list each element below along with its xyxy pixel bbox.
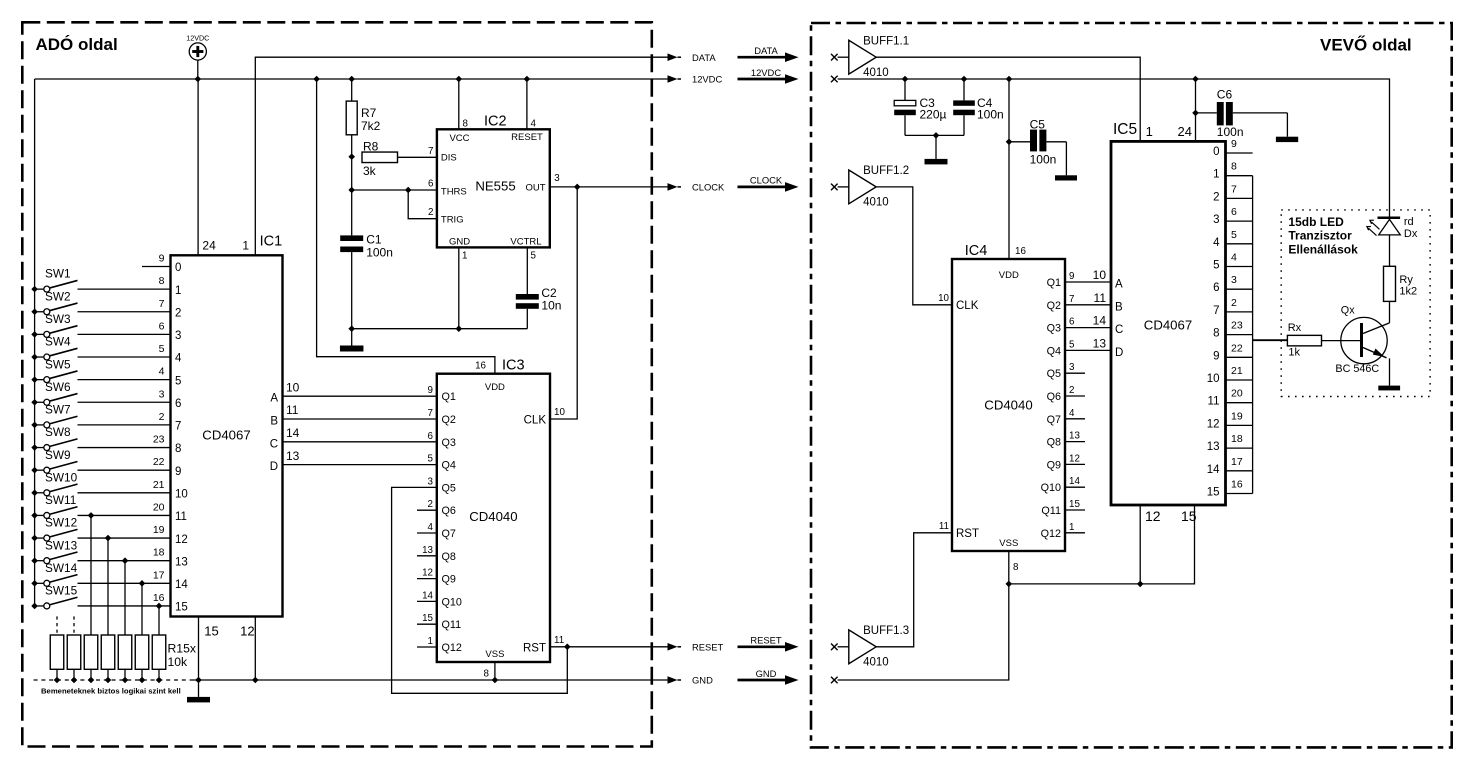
svg-text:3: 3	[1069, 362, 1075, 373]
svg-text:Q6: Q6	[442, 505, 456, 517]
svg-text:18: 18	[153, 547, 165, 559]
wire IC5 pin12 down	[1139, 505, 1141, 584]
input terminal x CLOCK	[831, 184, 838, 191]
switch SW1	[31, 267, 170, 293]
svg-text:D: D	[270, 461, 278, 473]
svg-text:C: C	[1115, 324, 1123, 336]
svg-text:3k: 3k	[363, 164, 377, 178]
svg-text:12VDC: 12VDC	[751, 67, 781, 78]
svg-text:C: C	[270, 438, 278, 450]
IC4 Q11 stub pin 15	[1065, 509, 1085, 511]
svg-text:13: 13	[1093, 336, 1107, 350]
input terminal x RESET	[831, 644, 838, 651]
wire OUT / CLOCK	[550, 186, 669, 188]
svg-text:4: 4	[531, 119, 537, 130]
wire THRS	[352, 189, 437, 191]
capacitor C1	[340, 235, 363, 241]
svg-text:Q4: Q4	[1047, 345, 1061, 357]
junction GND at pin12	[252, 677, 259, 684]
svg-text:14: 14	[1207, 464, 1220, 476]
svg-text:DATA: DATA	[692, 52, 716, 63]
svg-text:SW14: SW14	[45, 561, 78, 575]
svg-text:12: 12	[1069, 453, 1080, 464]
svg-text:SW10: SW10	[45, 470, 78, 484]
svg-text:14: 14	[1069, 476, 1080, 487]
svg-text:4010: 4010	[863, 657, 889, 669]
svg-text:GND: GND	[756, 668, 777, 679]
junction IC3 VDD branch	[313, 76, 320, 83]
wire emitter to ground	[1389, 358, 1391, 385]
switch SW2	[31, 289, 170, 315]
wire left supply bus	[34, 79, 36, 606]
switch SW15	[31, 584, 170, 610]
svg-text:21: 21	[153, 479, 165, 491]
VEVŐ oldal panel dash-dot border	[811, 23, 1452, 747]
wire IC4 Q1 to IC5 A	[1065, 281, 1111, 283]
resistor R15x element 5	[118, 635, 132, 669]
svg-text:0: 0	[1213, 146, 1219, 158]
wire TRIG branch	[408, 190, 437, 219]
svg-text:CD4040: CD4040	[469, 509, 517, 524]
wire IC4 Q4 to IC5 D	[1065, 349, 1111, 351]
junction OUT	[574, 184, 581, 191]
svg-text:13: 13	[175, 556, 188, 568]
svg-text:24: 24	[1178, 124, 1192, 139]
wire RST to RESET out	[550, 646, 669, 648]
svg-text:VEVŐ oldal: VEVŐ oldal	[1320, 36, 1412, 55]
IC3 Q labels	[442, 391, 462, 654]
svg-text:RESET: RESET	[511, 132, 543, 143]
svg-text:Q7: Q7	[442, 528, 456, 540]
junction 555 GND pin	[456, 325, 463, 332]
svg-text:100n: 100n	[977, 107, 1004, 121]
svg-text:VCTRL: VCTRL	[510, 236, 541, 247]
svg-text:SW12: SW12	[45, 516, 77, 530]
svg-text:SW7: SW7	[45, 403, 71, 417]
svg-text:15: 15	[422, 613, 433, 624]
svg-text:15: 15	[1207, 487, 1220, 499]
wire IC1 C to IC3 Q3	[283, 441, 437, 443]
svg-text:SW5: SW5	[45, 357, 71, 371]
junction C1 ground	[348, 325, 355, 332]
svg-text:IC4: IC4	[965, 243, 988, 259]
svg-text:A: A	[1115, 279, 1123, 291]
svg-text:7: 7	[428, 146, 433, 157]
svg-text:C5: C5	[1030, 117, 1046, 131]
switch SW12	[31, 516, 170, 542]
svg-text:B: B	[1115, 301, 1123, 313]
svg-text:1: 1	[428, 636, 433, 647]
svg-text:D: D	[1115, 347, 1123, 359]
svg-text:Q10: Q10	[1041, 482, 1061, 494]
svg-text:ADÓ oldal: ADÓ oldal	[36, 35, 118, 54]
capacitor C6	[1192, 79, 1298, 142]
junction GND at pin15	[195, 677, 202, 684]
svg-text:5: 5	[175, 375, 181, 387]
svg-text:SW8: SW8	[45, 425, 71, 439]
svg-text:23: 23	[1231, 320, 1243, 332]
IC3 Q10 stub pin 14	[417, 600, 437, 602]
svg-text:Q10: Q10	[442, 596, 462, 608]
input terminal x 12VDC	[831, 76, 838, 83]
junction THRS	[348, 187, 355, 194]
svg-text:Rx: Rx	[1288, 322, 1302, 334]
svg-text:7: 7	[175, 421, 181, 433]
junction R7/R8	[348, 153, 355, 160]
svg-text:5: 5	[1213, 260, 1219, 272]
svg-text:Q1: Q1	[442, 391, 456, 403]
svg-text:8: 8	[1213, 328, 1219, 340]
svg-text:8: 8	[1013, 562, 1019, 573]
switch SW6	[31, 380, 170, 406]
svg-text:Q1: Q1	[1047, 277, 1061, 289]
svg-text:Q8: Q8	[1047, 437, 1061, 449]
IC4 Q12 stub pin 1	[1065, 532, 1085, 534]
svg-text:11: 11	[286, 403, 299, 417]
output arrow RESET	[668, 641, 724, 652]
IC3 Q11 stub pin 15	[417, 623, 437, 625]
tap wire switch row to resistor 6	[139, 580, 146, 587]
wire IC3 VSS	[494, 662, 496, 680]
svg-text:13: 13	[1069, 431, 1080, 442]
svg-text:CD4067: CD4067	[1144, 318, 1192, 333]
svg-text:15: 15	[204, 624, 218, 639]
svg-text:1k2: 1k2	[1399, 286, 1417, 298]
wire 12VDC to IC3 VDD	[317, 79, 495, 374]
svg-text:6: 6	[159, 320, 165, 332]
capacitor C2	[516, 294, 539, 300]
wire IC4 Q3 to IC5 C	[1065, 327, 1111, 329]
svg-text:5: 5	[1231, 229, 1237, 241]
svg-text:1k: 1k	[1288, 347, 1300, 359]
svg-text:Q11: Q11	[442, 619, 462, 631]
svg-text:THRS: THRS	[441, 186, 467, 197]
ground symbol C3/C4	[935, 135, 937, 159]
svg-text:rd: rd	[1404, 216, 1414, 228]
svg-text:2: 2	[428, 207, 433, 218]
wire VCTRL pin 5 to C2	[526, 247, 528, 294]
svg-text:12: 12	[240, 624, 254, 639]
svg-text:8: 8	[463, 119, 469, 130]
IC4 Q10 stub pin 14	[1065, 486, 1085, 488]
svg-text:0: 0	[175, 262, 181, 274]
svg-text:9: 9	[159, 253, 165, 265]
junction R7 top	[348, 76, 355, 83]
svg-text:7: 7	[1231, 183, 1237, 195]
svg-text:4: 4	[175, 353, 182, 365]
wire BUFF1.2 out to IC4 CLK	[876, 187, 952, 305]
svg-text:VDD: VDD	[485, 382, 505, 393]
panel link arrow DATA	[738, 45, 799, 62]
svg-text:19: 19	[153, 524, 165, 536]
svg-text:100n: 100n	[1217, 125, 1244, 139]
NE555 pin numbers	[428, 119, 560, 262]
svg-text:23: 23	[153, 434, 165, 446]
svg-text:7: 7	[159, 298, 165, 310]
svg-text:4010: 4010	[863, 67, 889, 79]
svg-text:11: 11	[1208, 396, 1220, 408]
svg-text:10: 10	[175, 489, 188, 501]
output arrow DATA	[668, 52, 717, 63]
IC3 Q8 stub pin 13	[417, 555, 437, 557]
wire C1 to ground line	[351, 252, 353, 329]
junction C5 branch	[1006, 76, 1013, 83]
resistor Rx	[1287, 335, 1321, 346]
tap wire switch row to resistor 4	[105, 535, 112, 542]
output arrow 12VDC	[668, 74, 723, 85]
IC3 Q7 stub pin 4	[417, 532, 437, 534]
svg-text:9: 9	[1069, 271, 1074, 282]
svg-text:RST: RST	[523, 643, 546, 655]
junction C6 branch	[1192, 76, 1199, 83]
IC5 pin stubs ladder	[1226, 153, 1253, 494]
svg-text:RESET: RESET	[692, 641, 724, 652]
svg-text:Q3: Q3	[1047, 323, 1061, 335]
LED block dotted border	[1281, 210, 1430, 397]
IC3 Q12 stub pin 1	[417, 646, 437, 648]
resistor R15x element 7	[152, 635, 166, 669]
svg-text:12VDC: 12VDC	[186, 34, 209, 43]
wire DATA from IC1 pin 1	[255, 57, 669, 255]
svg-text:16: 16	[153, 592, 165, 604]
resistor Ry	[1384, 266, 1396, 301]
svg-text:IC5: IC5	[1113, 121, 1137, 138]
svg-text:6: 6	[428, 179, 434, 190]
svg-text:VSS: VSS	[999, 538, 1018, 549]
svg-text:6: 6	[428, 431, 434, 442]
svg-text:4: 4	[159, 366, 165, 378]
svg-text:6: 6	[1069, 317, 1075, 328]
IC5 channel labels	[1207, 146, 1220, 499]
svg-text:Q6: Q6	[1047, 391, 1061, 403]
junction IC4 VSS	[1006, 581, 1013, 588]
op-timer IC2 NE555 body	[437, 129, 550, 247]
IC4 Q labels	[1041, 277, 1061, 540]
svg-text:Q8: Q8	[442, 551, 456, 563]
svg-text:4: 4	[1069, 408, 1075, 419]
svg-text:NE555: NE555	[475, 179, 515, 194]
resistor R15x element 3	[84, 635, 98, 669]
svg-text:9: 9	[1213, 350, 1219, 362]
svg-text:10: 10	[286, 380, 300, 394]
wire RESET pin 4	[526, 79, 528, 129]
svg-text:7k2: 7k2	[361, 119, 381, 133]
svg-text:R8: R8	[363, 140, 379, 154]
svg-text:12: 12	[1145, 508, 1161, 524]
svg-text:10n: 10n	[541, 299, 561, 313]
wire GND pin 1	[458, 247, 460, 328]
junction RST	[564, 644, 571, 651]
svg-text:20: 20	[1231, 388, 1243, 400]
switch SW11	[31, 493, 170, 519]
svg-text:DATA: DATA	[754, 45, 778, 56]
svg-text:6: 6	[1231, 206, 1237, 218]
svg-text:11: 11	[1094, 291, 1107, 305]
wire THRS junction to C1	[351, 190, 353, 235]
svg-text:5: 5	[531, 251, 537, 262]
junction C5 tap	[1006, 139, 1013, 146]
transistor Qx BC546C	[1322, 305, 1390, 376]
IC1 bottom pin 15 wire	[198, 617, 200, 681]
tap wire switch row to resistor 7	[156, 603, 163, 610]
svg-text:9: 9	[175, 466, 181, 478]
svg-text:4: 4	[428, 522, 434, 533]
svg-text:9: 9	[428, 385, 433, 396]
output arrow GND	[668, 675, 714, 686]
svg-text:Dx: Dx	[1404, 228, 1418, 240]
svg-text:18: 18	[1231, 433, 1243, 445]
wire BUFF1.1 out to IC5 pin1	[876, 57, 1140, 141]
switch SW3	[31, 312, 170, 338]
svg-text:13: 13	[1207, 441, 1220, 453]
IC5 right pin numbers	[1231, 138, 1243, 491]
svg-text:Tranzisztor: Tranzisztor	[1288, 228, 1352, 242]
svg-text:100n: 100n	[1030, 152, 1057, 166]
junction C3/C4 ground	[933, 132, 940, 139]
wire supply to rail	[197, 60, 199, 79]
svg-text:B: B	[270, 416, 278, 428]
svg-text:19: 19	[1231, 410, 1243, 422]
wire R8 to DIS	[398, 156, 437, 158]
svg-text:4: 4	[1231, 252, 1237, 264]
svg-text:BUFF1.3: BUFF1.3	[863, 625, 909, 637]
svg-text:CLOCK: CLOCK	[692, 182, 725, 193]
IC4 CD4040 body	[952, 259, 1065, 551]
svg-text:5: 5	[159, 343, 165, 355]
capacitor C3 electrolytic	[904, 79, 906, 100]
svg-text:20: 20	[153, 501, 165, 513]
input terminal x GND	[831, 677, 838, 684]
ground symbol emitter	[1378, 386, 1400, 391]
wire 12VDC to C5 and IC4 VDD	[1008, 79, 1010, 259]
svg-text:7: 7	[428, 408, 433, 419]
wire rail to R7	[351, 79, 353, 101]
svg-text:15db LED: 15db LED	[1288, 215, 1344, 229]
wire LED to Ry	[1389, 235, 1391, 266]
svg-text:2: 2	[1069, 385, 1074, 396]
svg-text:BUFF1.2: BUFF1.2	[863, 165, 909, 177]
wire 12VDC rail right	[838, 79, 1390, 218]
svg-text:100n: 100n	[366, 246, 393, 260]
svg-text:14: 14	[422, 590, 433, 601]
svg-text:14: 14	[175, 579, 188, 591]
junction TRIG branch	[405, 187, 412, 194]
buffer BUFF1.2 (4010)	[849, 170, 876, 204]
junction supply	[195, 76, 202, 83]
svg-text:9: 9	[1231, 138, 1237, 150]
IC5 select labels A B C D	[1115, 279, 1123, 359]
LED Dx	[1367, 216, 1418, 240]
panel link arrow GND	[738, 668, 799, 685]
switch SW10	[31, 470, 170, 496]
svg-text:3: 3	[428, 476, 434, 487]
IC4 Q5 stub pin 3	[1065, 372, 1085, 374]
svg-text:1: 1	[242, 239, 249, 253]
svg-text:2: 2	[175, 307, 181, 319]
wire R7 to junction	[351, 135, 353, 157]
svg-text:3: 3	[159, 388, 165, 400]
resistor R8	[362, 152, 398, 163]
svg-text:11: 11	[554, 635, 564, 646]
svg-text:Q5: Q5	[442, 482, 456, 494]
wire IC4 Q2 to IC5 B	[1065, 304, 1111, 306]
svg-text:C1: C1	[366, 233, 382, 247]
svg-text:Q12: Q12	[1041, 528, 1061, 540]
IC1 left pin numbers	[153, 253, 165, 604]
svg-text:12VDC: 12VDC	[692, 74, 722, 85]
switch SW8	[31, 425, 170, 451]
svg-text:BC 546C: BC 546C	[1335, 363, 1379, 375]
svg-text:17: 17	[153, 569, 165, 581]
IC1 channel labels 0-15	[175, 262, 188, 613]
wire GND right panel	[838, 505, 1195, 680]
svg-text:17: 17	[1231, 456, 1243, 468]
junction 555 RESET	[524, 76, 531, 83]
svg-text:Q9: Q9	[442, 574, 456, 586]
svg-text:15: 15	[175, 602, 188, 614]
svg-text:SW3: SW3	[45, 312, 71, 326]
svg-text:CLOCK: CLOCK	[750, 175, 783, 186]
svg-text:VSS: VSS	[485, 649, 504, 660]
resistor R15x element 6	[135, 635, 149, 669]
switch SW14	[31, 561, 170, 587]
switch SW7	[31, 403, 170, 429]
svg-text:13: 13	[422, 545, 433, 556]
svg-text:14: 14	[1093, 314, 1107, 328]
svg-text:14: 14	[286, 426, 300, 440]
svg-text:15: 15	[1181, 508, 1197, 524]
wire to BUFF1.3	[838, 646, 849, 648]
svg-text:4010: 4010	[863, 197, 889, 209]
svg-text:Q7: Q7	[1047, 414, 1061, 426]
junction IC5 pin12	[1137, 581, 1144, 588]
IC3 CD4040 body	[437, 374, 550, 662]
svg-text:Q12: Q12	[442, 642, 462, 654]
svg-text:CD4067: CD4067	[202, 427, 250, 442]
svg-text:DIS: DIS	[441, 153, 457, 164]
svg-text:R7: R7	[361, 106, 377, 120]
svg-text:8: 8	[1231, 161, 1237, 173]
wire Ry to collector	[1389, 301, 1391, 323]
svg-text:IC3: IC3	[502, 358, 525, 374]
svg-text:Q4: Q4	[442, 460, 456, 472]
resistor R15x element 4	[101, 635, 115, 669]
svg-text:CLK: CLK	[956, 300, 979, 312]
ADÓ oldal panel dashed border	[22, 22, 652, 746]
ground symbol bottom	[198, 680, 200, 697]
svg-text:1: 1	[175, 285, 181, 297]
svg-text:1: 1	[462, 251, 467, 262]
input terminal x DATA	[831, 54, 838, 61]
wire IC1 pin 24 to rail	[197, 79, 199, 255]
switch SW4	[31, 335, 170, 361]
svg-text:8: 8	[175, 443, 181, 455]
IC1 bottom pin 12 wire	[254, 617, 256, 681]
svg-text:11: 11	[939, 521, 949, 532]
IC4 Q6 stub pin 2	[1065, 395, 1085, 397]
svg-text:1: 1	[1069, 522, 1074, 533]
svg-text:SW13: SW13	[45, 538, 78, 552]
junction C4	[961, 76, 968, 83]
svg-text:10k: 10k	[168, 655, 189, 669]
wire OUT to IC3 CLK	[550, 187, 577, 419]
switch SW13	[31, 538, 170, 564]
svg-text:8: 8	[484, 669, 490, 680]
svg-text:2: 2	[1213, 191, 1219, 203]
svg-text:13: 13	[286, 449, 300, 463]
svg-text:3: 3	[1213, 214, 1219, 226]
svg-text:10: 10	[938, 293, 949, 304]
